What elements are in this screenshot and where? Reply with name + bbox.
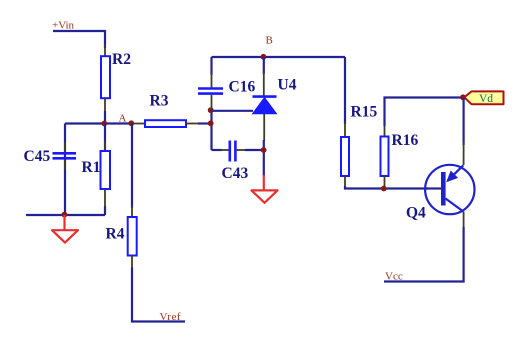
capacitor C16	[198, 73, 223, 110]
wire R4 to Vref	[132, 268, 185, 322]
wire R3 right to branch	[198, 122, 212, 124]
junction dot ground rail	[62, 212, 68, 218]
wire B rail down to R15	[344, 57, 346, 124]
junction dot R2/R1 branch	[101, 121, 107, 127]
wire bottom-left ground rail	[26, 214, 105, 216]
svg-text:B: B	[266, 35, 273, 47]
svg-text:R4: R4	[106, 226, 125, 243]
svg-text:C45: C45	[24, 148, 51, 165]
ground symbol left	[52, 215, 78, 243]
resistor R2	[101, 44, 110, 112]
resistor R1	[101, 124, 111, 208]
wire C43 to diode anode line	[245, 149, 264, 151]
junction dot R3 branch	[208, 120, 214, 126]
resistor R3	[133, 120, 199, 127]
wire diode anode to ground	[263, 140, 265, 176]
wire branch to C43	[212, 149, 223, 151]
wire R2 bottom to node-A rail	[104, 111, 106, 124]
wire R1 bottom drop	[104, 206, 106, 215]
wire C16/C43 branch vertical	[210, 110, 212, 150]
wire node A to R4	[131, 124, 133, 209]
diode U4	[253, 72, 277, 141]
transistor Q4	[425, 142, 474, 228]
wire node-A horizontal rail	[65, 122, 133, 124]
wire B to C16	[210, 57, 212, 75]
svg-text:Vcc: Vcc	[385, 271, 403, 283]
junction dot Vd	[460, 94, 466, 100]
svg-text:C43: C43	[222, 165, 249, 182]
junction dot C16 branch	[208, 107, 214, 113]
svg-text:+Vin: +Vin	[52, 20, 75, 32]
svg-text:R16: R16	[392, 132, 419, 149]
svg-text:A: A	[119, 113, 127, 125]
svg-text:R2: R2	[112, 51, 131, 68]
capacitor C45	[53, 142, 77, 170]
resistor R16	[381, 125, 389, 187]
wire B to diode cathode	[263, 57, 265, 74]
svg-text:Q4: Q4	[406, 205, 426, 222]
ground symbol middle	[252, 175, 278, 203]
wire Q4 collector to Vcc	[384, 227, 464, 282]
wire R16 top to Vd rail	[385, 98, 464, 127]
node A junction dot	[128, 120, 134, 126]
wire base rail into Q4	[426, 187, 441, 189]
wire diode anode horizontal	[212, 110, 254, 112]
svg-text:Vref: Vref	[160, 311, 182, 323]
svg-text:R15: R15	[351, 104, 378, 121]
wire node B rail	[212, 56, 346, 58]
svg-text:U4: U4	[278, 77, 297, 94]
resistor R4	[128, 206, 137, 269]
svg-text:Vd: Vd	[479, 93, 493, 105]
junction dot C43/diode	[261, 147, 267, 153]
junction dot R16 bottom	[381, 186, 387, 192]
svg-text:R3: R3	[150, 93, 169, 110]
resistor R15	[341, 122, 349, 187]
capacitor C43	[220, 141, 246, 162]
wire Vd to Q4 emitter	[463, 98, 465, 146]
svg-text:R1: R1	[82, 159, 101, 176]
wire R15 bottom to base rail	[345, 186, 428, 189]
junction dot node B	[261, 54, 267, 60]
wire C45 branch vertical	[64, 124, 66, 216]
wire +Vin rail to R2	[53, 31, 105, 48]
power port Vd flag	[464, 91, 503, 104]
svg-text:C16: C16	[229, 79, 256, 96]
